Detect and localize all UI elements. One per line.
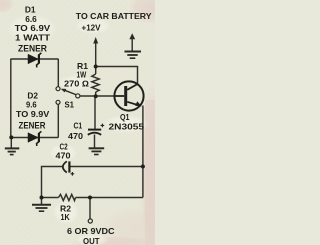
svg-text:Q1: Q1 (120, 112, 130, 122)
arrowhead +12V (93, 37, 98, 44)
junction node: base / R1 / C1 (94, 94, 98, 98)
svg-text:D1: D1 (25, 5, 36, 15)
light patch behind R2 1K (53, 200, 79, 224)
wire: collector branch (96, 67, 138, 85)
pink tint bottom-right quadrant (100, 206, 170, 245)
junction node: D2 / ground (9, 135, 13, 139)
svg-text:1K: 1K (61, 212, 71, 222)
capacitor C2 (63, 161, 74, 175)
wire: bottom wire left of R2 (42, 197, 59, 199)
pink tint right strip (145, 100, 155, 245)
light patch behind 270 (58, 75, 94, 91)
arrowhead battery ground (129, 33, 135, 39)
wire: +12V lead (95, 42, 97, 67)
wire: C2 left wire and left rail (42, 167, 63, 198)
wire: base wire from S1 pole (80, 95, 114, 97)
junction node: output (88, 196, 92, 200)
wire: D1 top horizontal (11, 58, 59, 60)
junction node: +12V / collector (94, 65, 98, 69)
wire: emitter rail (142, 106, 144, 198)
wire: left rail D1-D2 (10, 59, 12, 138)
ground left (D2 anode) (5, 148, 19, 154)
svg-text:OUT: OUT (83, 236, 100, 245)
transistor Q1 2N3055 (114, 81, 143, 110)
svg-text:ZENER: ZENER (18, 43, 48, 53)
svg-text:TO CAR BATTERY: TO CAR BATTERY (76, 12, 153, 21)
pink tint bottom strip (70, 236, 160, 245)
light patch behind 2N3055 (103, 115, 149, 133)
wire: D2 horizontal (11, 137, 59, 139)
svg-text:270 Ω: 270 Ω (64, 79, 90, 89)
resistor R2 zigzag (59, 194, 76, 200)
svg-text:6 OR 9VDC: 6 OR 9VDC (67, 226, 115, 236)
ground bottom-left (C2) (32, 205, 51, 211)
background paper (0, 0, 155, 245)
wire: output stub (89, 198, 91, 219)
svg-text:470: 470 (68, 131, 83, 141)
light patch behind +12V (75, 18, 111, 34)
wire: battery ground lead (131, 39, 133, 52)
svg-text:+12V: +12V (82, 23, 101, 33)
svg-text:470: 470 (56, 151, 71, 161)
light patch behind OUT (76, 234, 108, 245)
light patch behind D1 text (7, 14, 57, 44)
light patch behind C2 470 (49, 144, 77, 162)
output terminal circle (88, 219, 92, 223)
svg-text:1 WATT: 1 WATT (15, 33, 51, 43)
junction node: emitter rail / C2 (141, 165, 145, 169)
ground car battery return (125, 52, 142, 59)
svg-text:C1: C1 (74, 121, 83, 131)
wire: S1 bottom throw down to D2 (57, 104, 59, 137)
wire: bottom wire right of R2 (76, 197, 143, 199)
wire: C2 right wire (69, 166, 143, 168)
svg-text:TO 9.9V: TO 9.9V (16, 109, 50, 119)
wire: R1 top lead (95, 67, 97, 75)
ground under C1 (89, 148, 105, 154)
svg-text:TO 6.9V: TO 6.9V (15, 23, 51, 33)
diode D2 zener (28, 131, 41, 146)
wire: C1 lower stem to ground (94, 135, 96, 148)
wire: bottom-left ground stem (41, 198, 43, 205)
wire: C1 stem (94, 96, 96, 129)
wire: right rail D1 to S1 top throw (57, 59, 59, 87)
svg-text:ZENER: ZENER (19, 121, 47, 131)
pink tint top-right corner (128, 0, 172, 24)
svg-text:S1: S1 (65, 100, 75, 110)
pink tint top-left corner (0, 0, 14, 13)
diode D1 zener (28, 53, 41, 68)
wire: R1 bottom lead (95, 92, 97, 96)
svg-text:2N3055: 2N3055 (109, 122, 145, 132)
wire: left ground stem (10, 138, 12, 148)
switch S1 (56, 87, 80, 105)
resistor R1 zigzag (92, 74, 99, 92)
junction node: bottom-left / ground (40, 196, 44, 200)
capacitor C1 (88, 124, 104, 135)
